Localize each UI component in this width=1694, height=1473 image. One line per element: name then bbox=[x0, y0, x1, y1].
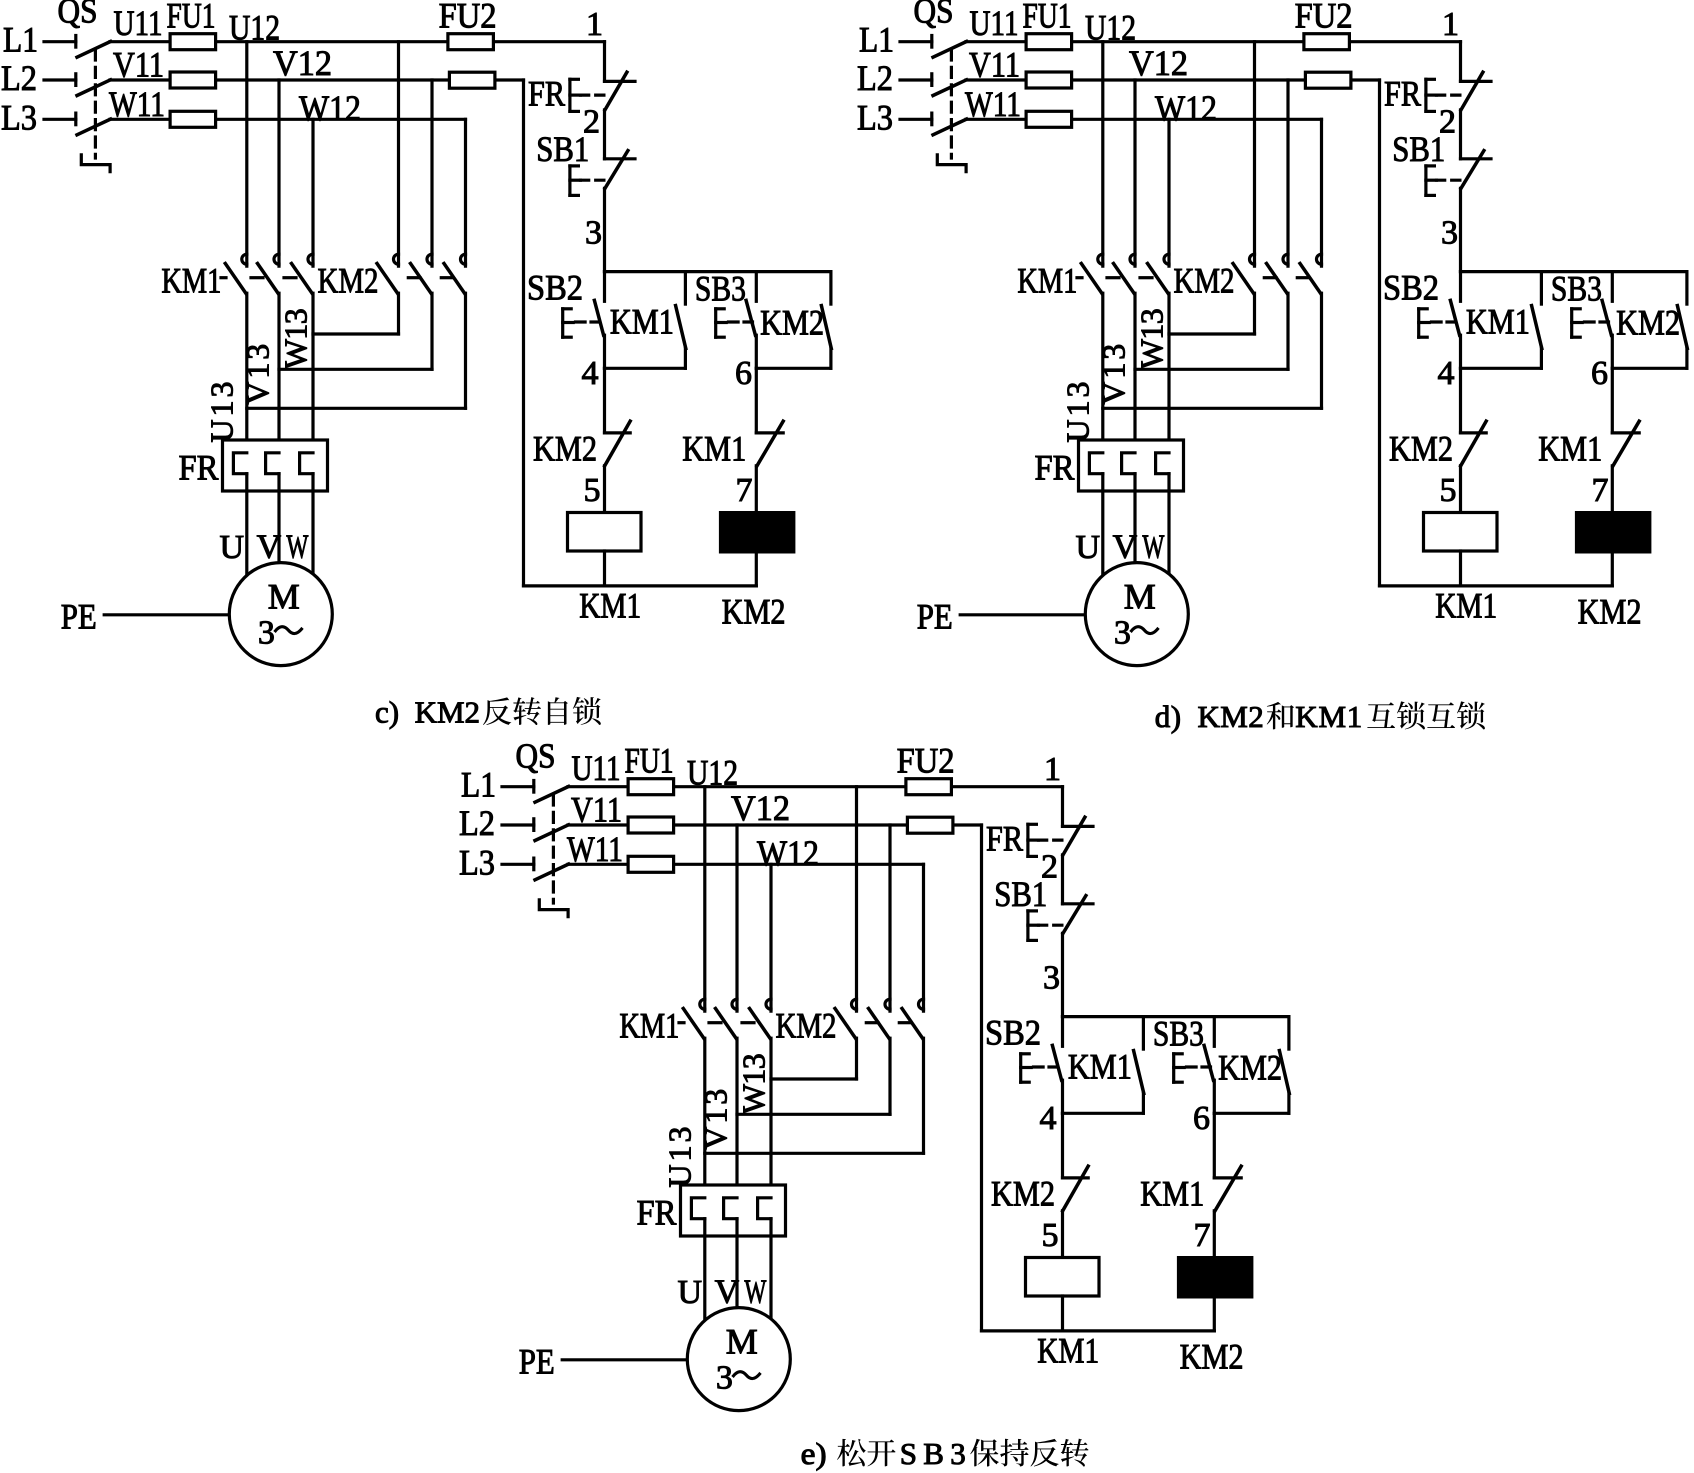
svg-text:QS: QS bbox=[516, 737, 556, 776]
e: button SB1 tick bbox=[1063, 902, 1094, 905]
svg-text:SB3: SB3 bbox=[900, 1436, 966, 1471]
e: wire coil KM2 out bbox=[1213, 1297, 1216, 1331]
d: button SB3 blade bbox=[1602, 300, 1611, 335]
svg-text:4: 4 bbox=[1438, 355, 1455, 392]
c: button SB1 actuator mid arm bbox=[570, 179, 581, 182]
svg-text:KM1: KM1 bbox=[1466, 302, 1530, 342]
c: button SB3 actuator bar bbox=[714, 309, 717, 337]
c: contactor KM2 main contact 2 blade bbox=[411, 264, 432, 294]
d: wire crossover KM2-1 to W13 bbox=[1169, 332, 1255, 335]
d: FR heater element V bbox=[1122, 453, 1135, 474]
svg-text:L2: L2 bbox=[1, 58, 37, 98]
c: wire KM2 feed W12 bbox=[464, 119, 467, 266]
c: switch QS pole L1 blade bbox=[77, 42, 111, 58]
c: contact KM2 interlock blade bbox=[605, 421, 631, 466]
svg-text:L3: L3 bbox=[459, 842, 495, 882]
e: switch QS pole L2 blade bbox=[535, 825, 569, 841]
d: fuse FU1 phase W bbox=[1026, 111, 1072, 127]
caption e chinese (release) bbox=[837, 1439, 895, 1467]
d: fuse FU1 phase U bbox=[1026, 34, 1072, 50]
c: wire crossover KM2-1 to W13 bbox=[313, 332, 399, 335]
d: contact FR tick bbox=[1461, 80, 1492, 83]
c: button SB2 blade bbox=[594, 300, 603, 335]
d: contactor KM2 main contact 1 fixed-contact hook bbox=[1250, 254, 1255, 264]
svg-text:L3: L3 bbox=[1, 97, 37, 137]
e: contactor KM2 main contact 2 fixed-contact hook bbox=[885, 999, 890, 1009]
c: wire node3 bbox=[603, 188, 606, 271]
c: contactor KM2 main contact 2 fixed-contact hook bbox=[427, 254, 432, 264]
c: wire control bottom rail bbox=[524, 584, 757, 587]
d: KM1 linkage dash b bbox=[1107, 276, 1119, 279]
e: contactor KM1 main contact 1 fixed-contact hook bbox=[700, 999, 705, 1009]
svg-text:W13: W13 bbox=[278, 308, 314, 369]
d: wire node5 bbox=[1459, 466, 1462, 513]
d: button SB3 top bbox=[1611, 272, 1614, 302]
e: wire crossover KM2-1 to W13 bbox=[771, 1077, 857, 1080]
svg-text:4: 4 bbox=[582, 355, 599, 392]
c: contact FR link (dashed) bbox=[581, 93, 605, 96]
svg-text:W11: W11 bbox=[567, 829, 623, 869]
e: contactor KM1 main contact 2 blade bbox=[716, 1009, 737, 1039]
c: contact KM1 aux blade bbox=[676, 306, 686, 349]
e: fuse FU1 phase W bbox=[628, 856, 674, 872]
e: FR heater element V bbox=[724, 1198, 737, 1219]
d: contactor KM1 main contact 1 blade bbox=[1081, 264, 1102, 294]
svg-text:FR: FR bbox=[1035, 448, 1075, 488]
e: button SB3 actuator bar bbox=[1172, 1054, 1175, 1082]
svg-text:6: 6 bbox=[1193, 1100, 1210, 1137]
c: wire V12 drop bbox=[277, 80, 280, 266]
d: KM2 linkage dash b bbox=[1297, 276, 1309, 279]
caption c chinese (KM2 reverse self-locking) bbox=[483, 697, 601, 725]
e: button SB3 link (dashed) bbox=[1187, 1065, 1211, 1068]
svg-text:W13: W13 bbox=[1134, 308, 1170, 369]
e: button SB3 bottom bbox=[1213, 1080, 1216, 1113]
svg-text:1: 1 bbox=[1442, 6, 1459, 43]
c: contactor KM2 main contact 1 blade bbox=[377, 264, 398, 294]
c: switch QS handle hook bbox=[81, 155, 110, 172]
d: button SB3 actuator bottom arm bbox=[1572, 336, 1581, 339]
c: button SB2 link (dashed) bbox=[576, 320, 600, 323]
d: fuse FU1 phase V bbox=[1026, 72, 1072, 88]
c: switch QS pole L3 blade bbox=[77, 119, 111, 135]
e: switch QS pole L3 fixed contact bbox=[532, 858, 535, 870]
d: button SB1 blade bbox=[1461, 151, 1484, 189]
svg-text:6: 6 bbox=[1591, 355, 1608, 392]
d: wire V12 drop bbox=[1133, 80, 1136, 266]
c: wire W13 bbox=[311, 293, 314, 453]
d: fuse FU2 lower bbox=[1305, 72, 1351, 88]
d: button SB2 actuator bottom arm bbox=[1419, 336, 1428, 339]
c: fuse FU1 phase V bbox=[170, 72, 216, 88]
e: button SB1 actuator bottom arm bbox=[1028, 939, 1037, 942]
d: FR heater element W bbox=[1156, 453, 1169, 474]
e: contact KM2 aux bottom bbox=[1287, 1094, 1290, 1114]
d: contact KM2 interlock blade bbox=[1461, 421, 1487, 466]
c: contact KM1 aux bottom bbox=[684, 349, 687, 369]
c: wire KM2 out 1 drop bbox=[397, 293, 400, 334]
c: wire KM2 feed V12 bbox=[430, 80, 433, 266]
svg-text:SB3: SB3 bbox=[695, 268, 746, 308]
svg-text:KM2: KM2 bbox=[776, 1006, 837, 1046]
d: button SB1 actuator mid arm bbox=[1426, 179, 1437, 182]
svg-text:W12: W12 bbox=[757, 833, 819, 873]
d: contact KM1 interlock blade bbox=[1613, 421, 1639, 466]
d: button SB3 actuator bar bbox=[1570, 309, 1573, 337]
svg-text:V12: V12 bbox=[731, 788, 790, 828]
svg-text:U: U bbox=[678, 1274, 703, 1311]
svg-text:5: 5 bbox=[1440, 472, 1457, 509]
svg-text:FU1: FU1 bbox=[1023, 0, 1072, 36]
svg-text:3: 3 bbox=[716, 1359, 733, 1396]
d: switch QS handle hook bbox=[937, 155, 966, 172]
e: contact KM1 aux top bbox=[1142, 1017, 1145, 1050]
e: contactor KM1 main contact 3 fixed-contact hook bbox=[766, 999, 771, 1009]
e: wire V12 drop bbox=[735, 825, 738, 1011]
c: wire U13 bbox=[245, 293, 248, 453]
svg-text:V13: V13 bbox=[240, 344, 276, 405]
d: button SB3 link (dashed) bbox=[1585, 320, 1609, 323]
d: button SB2 actuator mid arm bbox=[1419, 321, 1430, 324]
d: button SB1 link (dashed) bbox=[1437, 179, 1461, 182]
e: switch QS linkage (dashed) bbox=[552, 795, 555, 903]
e: contact FR actuator mid arm bbox=[1028, 838, 1039, 841]
d: button SB2 bottom bbox=[1459, 335, 1462, 368]
c: wire KM2 out 3 drop bbox=[464, 293, 467, 408]
svg-text:W12: W12 bbox=[1155, 88, 1217, 128]
d: button SB2 top bbox=[1459, 272, 1462, 302]
d: wire KM2 feed W12 bbox=[1320, 119, 1323, 266]
d: contactor KM1 main contact 2 blade bbox=[1114, 264, 1135, 294]
svg-text:SB1: SB1 bbox=[536, 129, 589, 169]
e: fuse FU1 phase U bbox=[628, 779, 674, 795]
e: contact FR actuator bar bbox=[1026, 824, 1029, 856]
e: wire KM2 out 3 drop bbox=[922, 1038, 925, 1153]
e: contact KM2 interlock blade bbox=[1063, 1166, 1089, 1211]
svg-text:QS: QS bbox=[58, 0, 98, 31]
e: wire FR out W bbox=[769, 1219, 772, 1323]
c: button SB3 bottom bbox=[755, 335, 758, 368]
svg-text:c) KM2: c) KM2 bbox=[375, 695, 480, 730]
d: switch QS pole L1 fixed contact bbox=[930, 36, 933, 48]
e: wire node6 drop bbox=[1213, 1113, 1216, 1178]
svg-text:W: W bbox=[1142, 529, 1165, 566]
e: switch QS pole L1 blade bbox=[535, 787, 569, 803]
svg-text:FR: FR bbox=[637, 1193, 677, 1233]
c: contactor KM1 main contact 3 fixed-contact hook bbox=[308, 254, 313, 264]
c: fuse FU2 upper bbox=[448, 34, 494, 50]
d: contact KM1 aux bottom bbox=[1540, 349, 1543, 369]
svg-text:W11: W11 bbox=[965, 84, 1021, 124]
svg-text:W11: W11 bbox=[109, 84, 165, 124]
e: wire KM2 feed U12 bbox=[855, 787, 858, 1011]
svg-text:FU2: FU2 bbox=[439, 0, 497, 36]
d: contact KM2 aux top bbox=[1685, 272, 1688, 305]
svg-text:U13: U13 bbox=[204, 382, 240, 443]
svg-text:U11: U11 bbox=[114, 3, 163, 43]
svg-text:U11: U11 bbox=[572, 748, 621, 788]
e: button SB3 blade bbox=[1204, 1045, 1213, 1080]
e: wire L1 stub bbox=[502, 785, 534, 788]
c: contact FR actuator mid arm bbox=[570, 93, 581, 96]
c: button SB3 top bbox=[755, 272, 758, 302]
e: fuse FU1 phase V bbox=[628, 817, 674, 833]
e: button SB2 actuator bottom arm bbox=[1021, 1081, 1029, 1084]
svg-text:KM1: KM1 bbox=[1017, 261, 1077, 301]
d: contactor KM2 main contact 2 blade bbox=[1267, 264, 1288, 294]
e: FR heater element U bbox=[691, 1198, 704, 1219]
c: button SB2 actuator mid arm bbox=[563, 321, 574, 324]
d: switch QS linkage (dashed) bbox=[950, 50, 953, 158]
svg-text:V12: V12 bbox=[273, 43, 332, 83]
e: contactor KM2 main contact 1 fixed-contact hook bbox=[852, 999, 857, 1009]
e: contact FR tick bbox=[1063, 825, 1094, 828]
c: wire coil KM1 out bbox=[603, 551, 606, 586]
e: coil KM2 (energized) bbox=[1179, 1258, 1252, 1297]
d: wire L3 phase line bbox=[966, 118, 1322, 121]
svg-text:W13: W13 bbox=[736, 1053, 772, 1114]
svg-text:V13: V13 bbox=[1096, 344, 1132, 405]
d: thermal relay FR box bbox=[1079, 440, 1184, 491]
svg-text:3: 3 bbox=[585, 215, 602, 252]
c: wire L1 stub bbox=[44, 40, 76, 43]
d: wire FR out W bbox=[1167, 474, 1170, 578]
c: FR heater element V bbox=[266, 453, 279, 474]
svg-text:V11: V11 bbox=[969, 45, 1020, 85]
e: button SB1 blade bbox=[1063, 896, 1086, 934]
d: contact KM2 aux bottom bbox=[1685, 349, 1688, 369]
e: wire control bottom rail bbox=[982, 1329, 1215, 1332]
e: thermal relay FR box bbox=[681, 1185, 786, 1236]
c: contact FR blade bbox=[605, 72, 627, 110]
svg-text:SB2: SB2 bbox=[527, 267, 583, 307]
e: KM2 linkage dash b bbox=[899, 1021, 911, 1024]
svg-text:SB3: SB3 bbox=[1551, 268, 1602, 308]
d: wire L1 stub bbox=[900, 40, 932, 43]
d: contact FR blade bbox=[1461, 72, 1483, 110]
d: wire U12 drop bbox=[1101, 42, 1104, 266]
c: wire V13 bbox=[277, 293, 280, 453]
e: button SB2 actuator mid arm bbox=[1021, 1066, 1031, 1069]
c: contact KM2 interlock tick bbox=[605, 431, 631, 434]
d: wire control bottom rail bbox=[1380, 584, 1613, 587]
d: contact KM1 aux blade bbox=[1532, 306, 1542, 349]
c: wire node5 bbox=[603, 466, 606, 513]
svg-text:FU2: FU2 bbox=[897, 741, 955, 781]
c: button SB2 bottom bbox=[603, 335, 606, 368]
c: wire node4 drop bbox=[603, 368, 606, 433]
svg-text:SB1: SB1 bbox=[994, 874, 1047, 914]
svg-text:SB3: SB3 bbox=[1153, 1013, 1204, 1053]
c: contactor KM2 main contact 3 fixed-contact hook bbox=[460, 254, 465, 264]
c: button SB2 actuator bottom arm bbox=[563, 336, 572, 339]
svg-text:V: V bbox=[715, 1274, 740, 1311]
d: switch QS pole L3 fixed contact bbox=[930, 113, 933, 125]
svg-text:L2: L2 bbox=[459, 803, 495, 843]
e: contact KM1 interlock tick bbox=[1214, 1176, 1241, 1179]
c: FR heater element W bbox=[300, 453, 313, 474]
c: motor tilde bbox=[276, 627, 302, 634]
e: wire node5 bbox=[1061, 1211, 1064, 1258]
d: button SB1 actuator bottom arm bbox=[1426, 194, 1435, 197]
e: wire KM2 out 1 drop bbox=[855, 1038, 858, 1079]
svg-text:L3: L3 bbox=[857, 97, 893, 137]
c: contact KM1 interlock tick bbox=[756, 431, 783, 434]
d: button SB3 actuator mid arm bbox=[1572, 321, 1583, 324]
d: contactor KM1 main contact 1 fixed-contact hook bbox=[1098, 254, 1103, 264]
d: contact KM2 aux blade bbox=[1677, 306, 1687, 349]
svg-text:KM2: KM2 bbox=[1180, 1337, 1244, 1377]
c: button SB3 actuator bottom arm bbox=[716, 336, 725, 339]
e: button SB1 actuator bar bbox=[1026, 911, 1029, 941]
c: contactor KM2 main contact 3 blade bbox=[444, 264, 465, 294]
e: button SB2 actuator top arm bbox=[1021, 1052, 1029, 1055]
c: contact FR actuator bottom arm bbox=[570, 110, 579, 113]
c: contactor KM1 main contact 3 blade bbox=[292, 264, 313, 294]
e: button SB2 blade bbox=[1052, 1045, 1061, 1080]
e: button SB3 actuator top arm bbox=[1174, 1052, 1183, 1055]
d: motor M circle bbox=[1085, 563, 1188, 666]
svg-text:KM1: KM1 bbox=[579, 586, 641, 626]
e: contactor KM1 main contact 1 blade bbox=[683, 1009, 704, 1039]
e: wire node3 bbox=[1061, 933, 1064, 1016]
d: wire coil KM2 out bbox=[1611, 552, 1614, 586]
svg-text:1: 1 bbox=[1044, 751, 1061, 788]
c: wire FR out W bbox=[311, 474, 314, 578]
svg-text:SB2: SB2 bbox=[985, 1012, 1041, 1052]
c: coil KM2 (energized) bbox=[721, 513, 794, 552]
svg-text:KM2: KM2 bbox=[991, 1174, 1055, 1214]
c: wire control bus top bbox=[603, 42, 606, 82]
e: KM1 linkage dash a bbox=[679, 1021, 684, 1024]
c: wire KM2 out 2 drop bbox=[430, 293, 433, 369]
d: contactor KM1 main contact 3 fixed-contact hook bbox=[1164, 254, 1169, 264]
d: fuse FU2 upper bbox=[1304, 34, 1350, 50]
d: motor tilde bbox=[1132, 627, 1158, 634]
svg-text:KM2: KM2 bbox=[1389, 429, 1453, 469]
d: contact FR link (dashed) bbox=[1437, 93, 1461, 96]
e: button SB3 actuator bottom arm bbox=[1174, 1081, 1183, 1084]
e: contactor KM2 main contact 1 blade bbox=[835, 1009, 856, 1039]
svg-text:KM1: KM1 bbox=[682, 429, 746, 469]
svg-text:V: V bbox=[1113, 529, 1138, 566]
svg-text:5: 5 bbox=[1042, 1217, 1059, 1254]
svg-text:KM2: KM2 bbox=[1218, 1048, 1282, 1088]
d: wire U13 bbox=[1101, 293, 1104, 453]
e: KM1 linkage dash b bbox=[709, 1021, 721, 1024]
c: contact FR actuator top arm bbox=[570, 78, 579, 81]
e: button SB2 link (dashed) bbox=[1034, 1065, 1058, 1068]
e: contactor KM1 main contact 3 blade bbox=[750, 1009, 771, 1039]
c: wire L3 stub bbox=[44, 118, 76, 121]
d: contactor KM1 main contact 2 fixed-contact hook bbox=[1130, 254, 1135, 264]
e: wire rail node6 bbox=[1214, 1112, 1289, 1115]
svg-text:W: W bbox=[286, 529, 309, 566]
d: wire node3 bbox=[1459, 188, 1462, 271]
c: button SB3 actuator mid arm bbox=[716, 321, 727, 324]
c: button SB3 blade bbox=[746, 300, 755, 335]
c: fuse FU1 phase U bbox=[170, 34, 216, 50]
c: button SB1 blade bbox=[605, 151, 628, 189]
d: button SB3 actuator top arm bbox=[1572, 307, 1581, 310]
svg-text:KM2: KM2 bbox=[722, 592, 786, 632]
d: wire W13 bbox=[1167, 293, 1170, 453]
e: wire control bus top bbox=[1061, 787, 1064, 827]
d: wire control bus top bbox=[1459, 42, 1462, 82]
svg-text:L2: L2 bbox=[857, 58, 893, 98]
caption d chinese he bbox=[1267, 702, 1294, 730]
svg-text:U12: U12 bbox=[229, 8, 280, 48]
d: contact KM2 interlock tick bbox=[1461, 431, 1487, 434]
svg-text:3: 3 bbox=[258, 614, 275, 651]
svg-text:KM2: KM2 bbox=[1616, 303, 1680, 343]
e: wire L3 stub bbox=[502, 863, 534, 866]
e: contact FR blade bbox=[1063, 817, 1085, 855]
svg-text:FR: FR bbox=[986, 818, 1023, 858]
d: contact FR actuator bottom arm bbox=[1426, 110, 1435, 113]
c: contact FR tick bbox=[605, 80, 636, 83]
c: contact KM2 aux blade bbox=[821, 306, 831, 349]
d: wire L3 stub bbox=[900, 118, 932, 121]
c: KM1 linkage dash c bbox=[284, 276, 296, 279]
d: coil KM2 (energized) bbox=[1577, 513, 1650, 552]
e: button SB2 top bbox=[1061, 1017, 1064, 1047]
c: KM2 linkage dash a bbox=[408, 276, 420, 279]
e: motor tilde bbox=[734, 1372, 760, 1379]
c: wire FR out V bbox=[277, 474, 280, 578]
c: coil KM1 bbox=[568, 513, 642, 552]
c: switch QS pole L1 fixed contact bbox=[74, 36, 77, 48]
svg-text:W12: W12 bbox=[299, 88, 361, 128]
d: contactor KM2 main contact 3 fixed-contact hook bbox=[1317, 254, 1322, 264]
c: button SB1 actuator top arm bbox=[570, 164, 579, 167]
c: contactor KM1 main contact 2 fixed-contact hook bbox=[274, 254, 279, 264]
d: wire FR out U bbox=[1101, 474, 1104, 578]
c: motor M circle bbox=[229, 563, 332, 666]
svg-text:KM2: KM2 bbox=[533, 429, 597, 469]
d: switch QS pole L2 fixed contact bbox=[930, 74, 933, 86]
c: contactor KM1 main contact 1 blade bbox=[225, 264, 246, 294]
svg-text:3: 3 bbox=[1441, 215, 1458, 252]
d: contact FR actuator mid arm bbox=[1426, 93, 1437, 96]
c: button SB1 actuator bar bbox=[568, 166, 571, 196]
e: contact KM2 interlock tick bbox=[1063, 1176, 1089, 1179]
c: wire L3 phase line bbox=[110, 118, 466, 121]
svg-text:KM1: KM1 bbox=[610, 302, 674, 342]
svg-text:M: M bbox=[726, 1322, 758, 1362]
e: contact FR actuator top arm bbox=[1028, 823, 1037, 826]
d: coil KM1 bbox=[1424, 513, 1498, 552]
svg-text:e): e) bbox=[801, 1436, 827, 1471]
c: wire node7 bbox=[755, 466, 758, 513]
e: wire PE bbox=[562, 1358, 687, 1361]
e: wire U13 bbox=[703, 1038, 706, 1198]
d: wire node2 bbox=[1459, 110, 1462, 159]
svg-text:KM1: KM1 bbox=[1140, 1174, 1204, 1214]
e: wire V13 bbox=[735, 1038, 738, 1198]
svg-text:PE: PE bbox=[519, 1341, 555, 1381]
e: button SB1 actuator top arm bbox=[1028, 909, 1037, 912]
c: contactor KM1 main contact 1 fixed-contact hook bbox=[242, 254, 247, 264]
d: button SB2 link (dashed) bbox=[1432, 320, 1456, 323]
e: KM1 linkage dash c bbox=[742, 1021, 754, 1024]
d: wire L2 stub bbox=[900, 78, 932, 81]
d: wire coil KM1 out bbox=[1459, 551, 1462, 586]
svg-text:KM1: KM1 bbox=[1068, 1047, 1132, 1087]
e: coil KM1 bbox=[1026, 1258, 1100, 1297]
svg-text:V13: V13 bbox=[698, 1089, 734, 1150]
c: contact KM1 aux top bbox=[684, 272, 687, 305]
